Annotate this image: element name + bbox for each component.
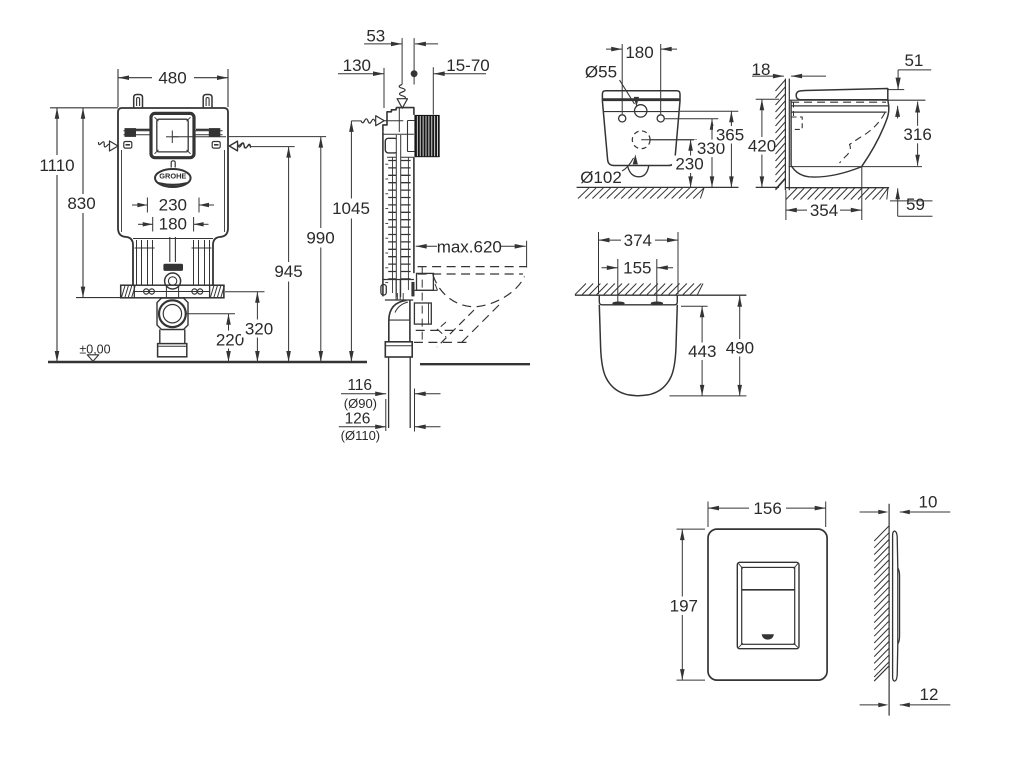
dim 1045 line [350,121,352,362]
dashed back detail [793,103,795,117]
bracket bolt circles left [144,289,149,294]
dashed trap vee [437,322,446,337]
svg-text:12: 12 [920,685,939,704]
dim 230 tick left [146,198,148,213]
dim 156 extension lines [707,502,709,528]
frame inner side contour right [224,150,226,232]
inspection opening [385,138,397,153]
frame top tab right [203,95,212,109]
water inlet circle [635,105,647,117]
dim 330 text [694,140,730,158]
dim max.620 end tick [526,241,528,268]
plan wall hatch [575,284,586,295]
dim 443 text [684,343,721,361]
dim 365 text [713,126,749,144]
dim 180 tick left [152,217,154,232]
button divider line [742,589,795,591]
dim 1110 top extension line [50,107,118,109]
outlet connector lower [414,303,431,324]
dim 1110 line [56,108,58,362]
svg-text:945: 945 [274,262,302,281]
dim 1110 text [36,155,78,175]
dim 180 tick right [193,217,195,232]
svg-text:354: 354 [810,201,838,220]
dashed drain line 2 [414,341,467,343]
mounting hole left [619,115,626,122]
flush actuator box inner [157,119,188,152]
wall extension below floor [785,190,787,220]
dim 374 line [599,239,622,241]
dim 220 extension line [186,313,235,315]
seat top extension line [889,89,905,91]
dim 420 extension line [756,98,779,100]
dim 945 line [288,147,290,362]
dim 230 text rear [672,156,708,174]
svg-text:53: 53 [366,27,385,46]
head pipe line [398,108,400,132]
outlet bend outer circle [159,300,186,327]
dim 230 extension line [650,139,697,141]
button chamfer marks [738,563,742,568]
svg-text:116: 116 [347,377,372,394]
svg-text:990: 990 [306,228,334,247]
dashed trap diagonal 2 [437,310,474,347]
wall line outer [784,79,786,191]
frame step shelf line [133,238,213,240]
drain leader line [641,139,697,141]
svg-text:490: 490 [726,338,754,357]
svg-text:±0,00: ±0,00 [79,342,110,356]
dim 197 extension lines [677,528,706,530]
dim 230 arrows [132,204,147,206]
dim 180 arrows [606,48,622,50]
bracket inner line [134,291,209,293]
outlet bend inner circle [163,305,181,323]
ceramic rim lines [791,105,888,107]
supply channel lines right [193,240,195,285]
svg-text:374: 374 [624,231,652,250]
dim 18 counter arrow [791,75,826,77]
svg-text:(Ø90): (Ø90) [344,396,377,411]
svg-text:180: 180 [625,43,653,62]
dim 155 arrows [602,267,618,269]
dim 330 line [711,119,713,188]
outlet collar [158,344,187,357]
diameter 55 leader arrow [620,80,635,104]
plan wall line [575,294,747,296]
dim 480 text [152,68,194,87]
dim 1045 extension and squiggle [351,120,361,122]
frame foot lug left [381,285,386,296]
frame lower section [383,280,414,301]
svg-text:max.620: max.620 [437,237,502,256]
supply channel lines left [136,240,138,285]
GROHE logo swoosh [158,183,188,186]
ground line right of pipe [420,363,530,365]
block connector [408,121,415,152]
dim 197 line [681,529,683,680]
svg-text:155: 155 [623,259,651,278]
dim 126 counter arrow [415,426,441,428]
dim max.620 line [416,245,437,247]
dashed centre line vertical [421,267,423,343]
svg-text:316: 316 [903,125,931,144]
dim 59 line [897,188,899,216]
GROHE logo ellipse [155,169,191,187]
dim 354 right extension line [861,167,863,220]
dim 220 text [212,331,248,349]
svg-text:59: 59 [906,195,925,214]
flush actuator corner mark 1 [155,117,159,121]
flush pipe white band [396,136,400,293]
reference dot [411,70,418,77]
floor hatch [786,188,797,199]
flush direction squiggle arrow [399,85,405,100]
WC underside [791,165,862,177]
ladder wide rungs [388,160,410,162]
flush button inner frame [742,567,795,644]
mounting bolt rod left [124,130,152,132]
dim 1045 text [330,199,372,219]
dim 230 line [690,140,692,188]
dim 420 line [761,99,763,187]
svg-text:830: 830 [67,194,95,213]
dim 443 extension line [681,305,708,307]
channel tick marks [135,247,155,249]
svg-text:10: 10 [919,492,938,511]
dim 320 line [256,292,258,362]
dim 180 arrows [138,223,153,225]
floor line side view [785,187,889,189]
svg-text:230: 230 [159,195,187,214]
frame foot lug right [411,282,414,297]
bracket centre pass-through [165,285,167,298]
dim 990 text [303,228,339,248]
flush actuator centre line [172,136,226,138]
wall anchor arrow left [98,142,110,147]
dashed bowl outline [433,275,525,307]
svg-text:197: 197 [670,597,698,616]
wall block extension line [432,67,434,114]
ladder rungs left column [385,163,388,165]
flush button outer frame [737,562,799,648]
plan bolt left [612,302,624,306]
dim 59 tick [890,200,933,202]
dim 420 ground extension [756,186,779,188]
ceramic top line [789,99,925,101]
svg-text:320: 320 [245,319,273,338]
svg-text:Ø55: Ø55 [585,62,617,81]
drain elbow inner arc [395,302,408,313]
svg-text:1045: 1045 [332,199,370,218]
dim 180 extension lines [621,44,623,114]
dim 320 text [241,320,277,338]
mounting bolt rod right [194,130,223,132]
plan bolt right [651,302,663,306]
dim 990 line [320,137,322,362]
wall hatch side view [776,80,786,91]
frame right channel line [407,157,409,290]
side frame head outline [383,108,414,132]
dim 316 line [917,102,919,166]
svg-text:GROHE: GROHE [159,172,186,181]
hidden seat dashed line [791,101,886,103]
svg-text:365: 365 [716,125,744,144]
bracket bolt circles right [192,289,197,294]
inspection port circle [165,273,181,289]
dim 830 line [82,108,84,298]
WC seat side profile [796,89,888,100]
dashed trap diagonal 1 [458,305,499,346]
mounting bolt block left [125,128,137,137]
button mouth mark [762,635,774,640]
outlet flange upper [417,273,434,290]
dim 354 line [786,209,807,211]
dim 365 line [730,111,732,187]
frame front extension line [383,68,385,108]
rear ground hatch [578,188,589,199]
svg-text:126: 126 [345,411,371,428]
svg-text:(Ø110): (Ø110) [341,428,381,443]
dim 316 text [899,126,936,144]
rear ground line [577,186,739,188]
clip left [124,142,132,149]
dim 945 text [271,262,307,282]
dim 51 arrows [897,70,899,90]
dim 420 text [744,137,780,155]
dim 320 extension line [225,291,265,293]
WC tank band thick [602,98,680,101]
dim 830 bottom extension line [76,297,121,299]
wall line inner [788,79,790,191]
dim 59 text and leader [898,215,933,217]
flush actuator centre cross [171,131,173,144]
dim 374 extension lines [598,232,600,294]
plate side profile [893,531,898,681]
dim 155 extension lines [617,259,619,303]
pipe extension line right [414,389,416,432]
plate wall hatch [874,526,889,541]
drain collar side [385,342,412,357]
dashed drain line 1 [416,329,463,331]
bowl bottom extension line [789,166,922,168]
flush tube label [163,264,183,271]
flush pipe lines [395,135,397,297]
WC tank lid line [604,111,679,113]
clip right [212,142,220,149]
drain pipe below ground [388,357,390,428]
flush actuator corner mark 3 [155,150,159,154]
side frame body outline [382,131,384,296]
frame inner side contour left [121,150,123,232]
flush actuator box outer [151,113,194,157]
dim 490 text [721,339,758,357]
mounting bolt block right [209,128,221,137]
GROHE logo stem [171,161,175,168]
dim 990 extension line [229,136,326,138]
drain elbow seam [389,319,410,321]
dim 945 squiggle and extension [230,141,238,150]
flush pipe extension line left [401,38,403,84]
mounting hole right [657,115,664,122]
dim 365 extension line [680,110,738,112]
ground zero marker triangle [87,355,99,361]
dim 156 line [708,507,749,509]
svg-text:130: 130 [343,56,371,75]
flush tube centre [169,237,171,262]
wall thickness block [414,115,439,157]
drain dashed circle [632,131,650,149]
flush actuator corner mark 2 [187,117,191,121]
drain elbow side [389,300,410,342]
WC trap bulge [628,166,649,177]
dim 330 extension line [665,118,718,120]
pipe extension line left [385,399,387,431]
plan WC outline [599,295,677,305]
svg-text:180: 180 [159,215,187,234]
ladder channel verticals [392,157,394,293]
flush actuator corner mark 4 [187,150,191,154]
frame top tab left [134,95,143,109]
dim 230 tick right [198,198,200,213]
dashed bowl top lines [418,266,527,268]
dim 490 baseline [670,395,747,397]
svg-text:156: 156 [753,499,781,518]
svg-text:15-70: 15-70 [446,56,489,75]
dim 116 counter arrow [415,393,441,395]
plate button bump [898,568,900,644]
dim 220 line [228,314,230,362]
dashed inlet box [792,117,803,129]
ground line [48,361,367,363]
svg-text:420: 420 [748,137,776,156]
bracket hatched end right [210,285,224,298]
dashed interior trap [840,113,886,164]
dim 490 line [739,296,741,396]
WC body profile curve [862,100,889,167]
svg-text:51: 51 [904,51,923,70]
outlet housing [157,298,188,330]
wall anchor arrow right [238,143,251,148]
svg-text:480: 480 [158,69,186,88]
dim 830 text [65,194,100,213]
diameter 102 leader arrow [622,158,634,171]
frame outline [118,108,228,285]
dim 197 text [664,597,701,616]
svg-text:443: 443 [688,342,716,361]
flush pipe extension line right [413,38,415,84]
bracket hatched end left [121,285,135,298]
plate wall line [888,504,890,716]
WC back edge [790,100,792,165]
side frame seam lines [383,133,414,135]
dim 480 line [118,77,228,79]
svg-text:220: 220 [216,330,244,349]
svg-text:1110: 1110 [39,156,74,175]
dim 480 extension lines [117,69,119,107]
flush plate outline [708,529,827,680]
dim 53 counter arrow [415,43,438,45]
WC rear outline [602,91,680,166]
dim 443 line [701,306,703,396]
support bracket band [121,285,224,298]
svg-text:Ø102: Ø102 [580,168,622,187]
outlet pipe down [159,330,161,344]
